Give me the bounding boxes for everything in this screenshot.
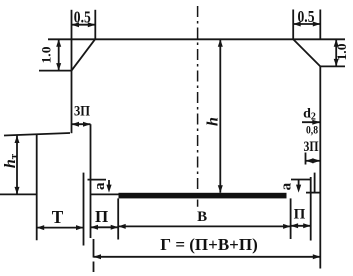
svg-text:d2: d2 [303, 107, 316, 123]
svg-text:Г = (П+В+П): Г = (П+В+П) [160, 235, 257, 254]
svg-text:3П: 3П [304, 139, 319, 155]
svg-text:П: П [95, 207, 108, 226]
svg-text:В: В [197, 209, 207, 225]
svg-text:0.5: 0.5 [74, 8, 91, 27]
svg-text:0,8: 0,8 [306, 123, 318, 137]
svg-text:Т: Т [52, 207, 64, 227]
svg-text:a: a [92, 182, 108, 190]
svg-text:h: h [205, 117, 222, 126]
svg-text:1.0: 1.0 [39, 47, 54, 64]
svg-text:П: П [294, 207, 306, 223]
svg-text:a: a [279, 182, 295, 190]
svg-text:0.5: 0.5 [298, 7, 315, 26]
svg-text:hт: hт [2, 153, 20, 168]
svg-text:1.0: 1.0 [334, 44, 349, 61]
svg-text:3П: 3П [74, 104, 90, 120]
